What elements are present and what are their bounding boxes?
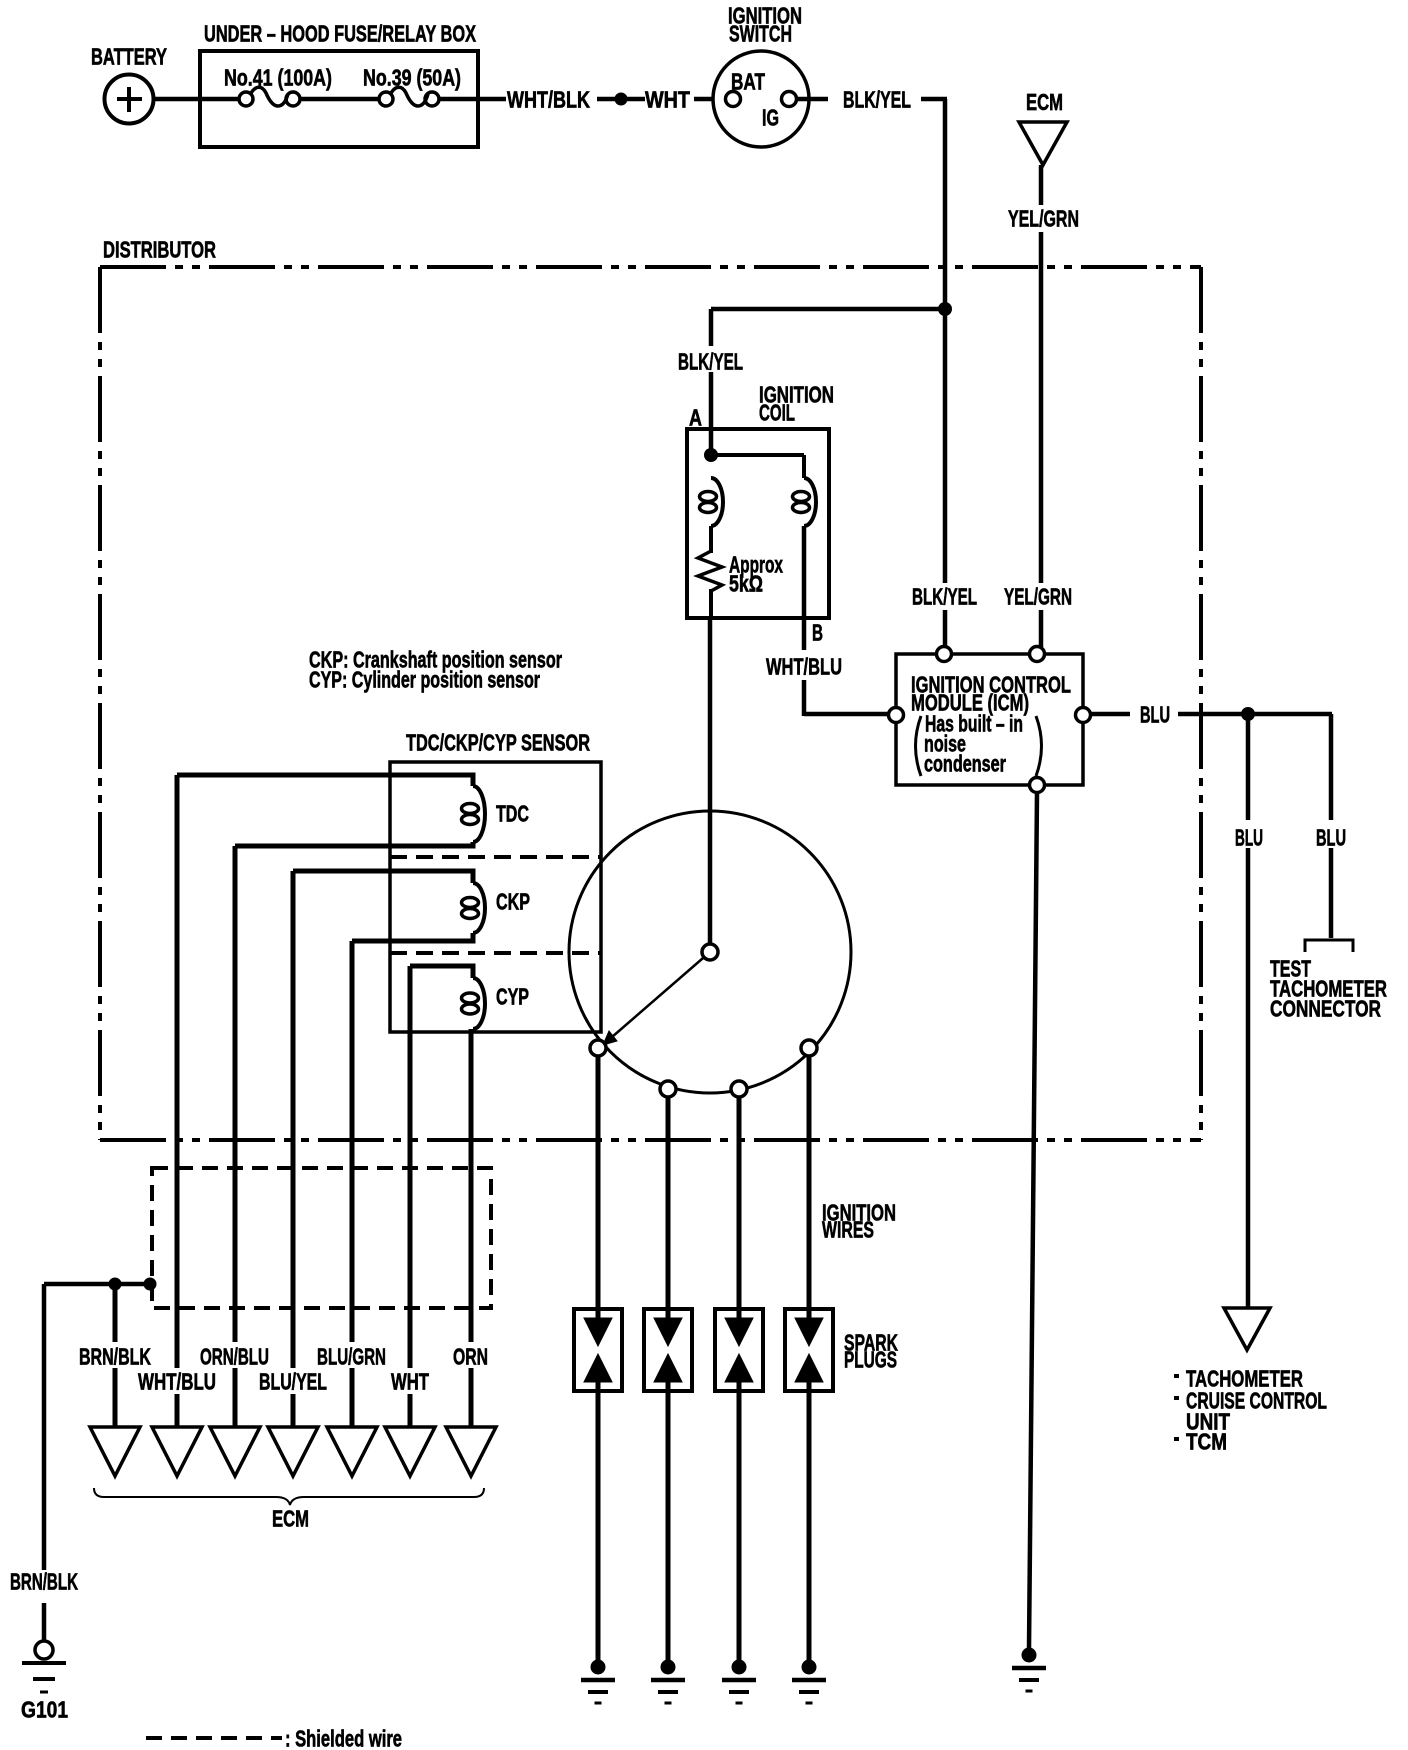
svg-text:ECM: ECM [272, 1506, 309, 1532]
svg-text:BLU: BLU [1316, 825, 1346, 851]
svg-text:CKP: CKP [496, 889, 530, 915]
svg-text:WHT/BLU: WHT/BLU [766, 654, 842, 680]
svg-text:BLK/YEL: BLK/YEL [912, 584, 977, 610]
svg-text:TDC/CKP/CYP SENSOR: TDC/CKP/CYP SENSOR [406, 730, 590, 756]
svg-text:BLK/YEL: BLK/YEL [843, 87, 911, 113]
svg-text:CYP: Cylinder position sensor: CYP: Cylinder position sensor [309, 667, 540, 693]
svg-text:YEL/GRN: YEL/GRN [1004, 584, 1072, 610]
svg-text:BLK/YEL: BLK/YEL [678, 349, 743, 375]
svg-text:WHT/BLU: WHT/BLU [138, 1369, 216, 1395]
svg-text:: Shielded wire: : Shielded wire [285, 1726, 402, 1750]
svg-text:WIRES: WIRES [822, 1217, 874, 1243]
svg-text:COIL: COIL [759, 400, 795, 426]
svg-text:SWITCH: SWITCH [729, 21, 792, 47]
svg-text:A: A [689, 405, 702, 431]
svg-text:condenser: condenser [924, 751, 1006, 777]
svg-text:BLU/GRN: BLU/GRN [317, 1344, 386, 1370]
svg-text:PLUGS: PLUGS [844, 1347, 897, 1373]
svg-text:5kΩ: 5kΩ [729, 571, 763, 597]
svg-text:TCM: TCM [1186, 1429, 1227, 1455]
svg-text:UNDER – HOOD FUSE/RELAY BOX: UNDER – HOOD FUSE/RELAY BOX [204, 21, 476, 47]
svg-text:G101: G101 [21, 1697, 68, 1723]
svg-text:IG: IG [762, 105, 779, 131]
svg-text:ORN: ORN [453, 1344, 488, 1370]
svg-text:No.41 (100A): No.41 (100A) [224, 65, 332, 91]
svg-text:No.39 (50A): No.39 (50A) [363, 65, 461, 91]
svg-text:CONNECTOR: CONNECTOR [1270, 996, 1381, 1022]
svg-text:CYP: CYP [496, 984, 529, 1010]
svg-text:ORN/BLU: ORN/BLU [200, 1344, 269, 1370]
svg-text:ECM: ECM [1026, 89, 1063, 115]
svg-text:BLU/YEL: BLU/YEL [259, 1369, 327, 1395]
svg-text:BRN/BLK: BRN/BLK [79, 1344, 151, 1370]
svg-text:BATTERY: BATTERY [91, 44, 167, 70]
svg-text:WHT: WHT [645, 87, 690, 113]
svg-text:B: B [812, 620, 823, 646]
svg-text:DISTRIBUTOR: DISTRIBUTOR [103, 237, 216, 263]
svg-text:BLU: BLU [1140, 702, 1170, 728]
svg-text:BLU: BLU [1235, 825, 1263, 851]
svg-text:BRN/BLK: BRN/BLK [10, 1569, 78, 1595]
svg-text:YEL/GRN: YEL/GRN [1008, 206, 1079, 232]
svg-text:WHT/BLK: WHT/BLK [507, 87, 590, 113]
svg-text:BAT: BAT [731, 69, 765, 95]
svg-text:TDC: TDC [496, 801, 529, 827]
svg-text:WHT: WHT [391, 1369, 429, 1395]
